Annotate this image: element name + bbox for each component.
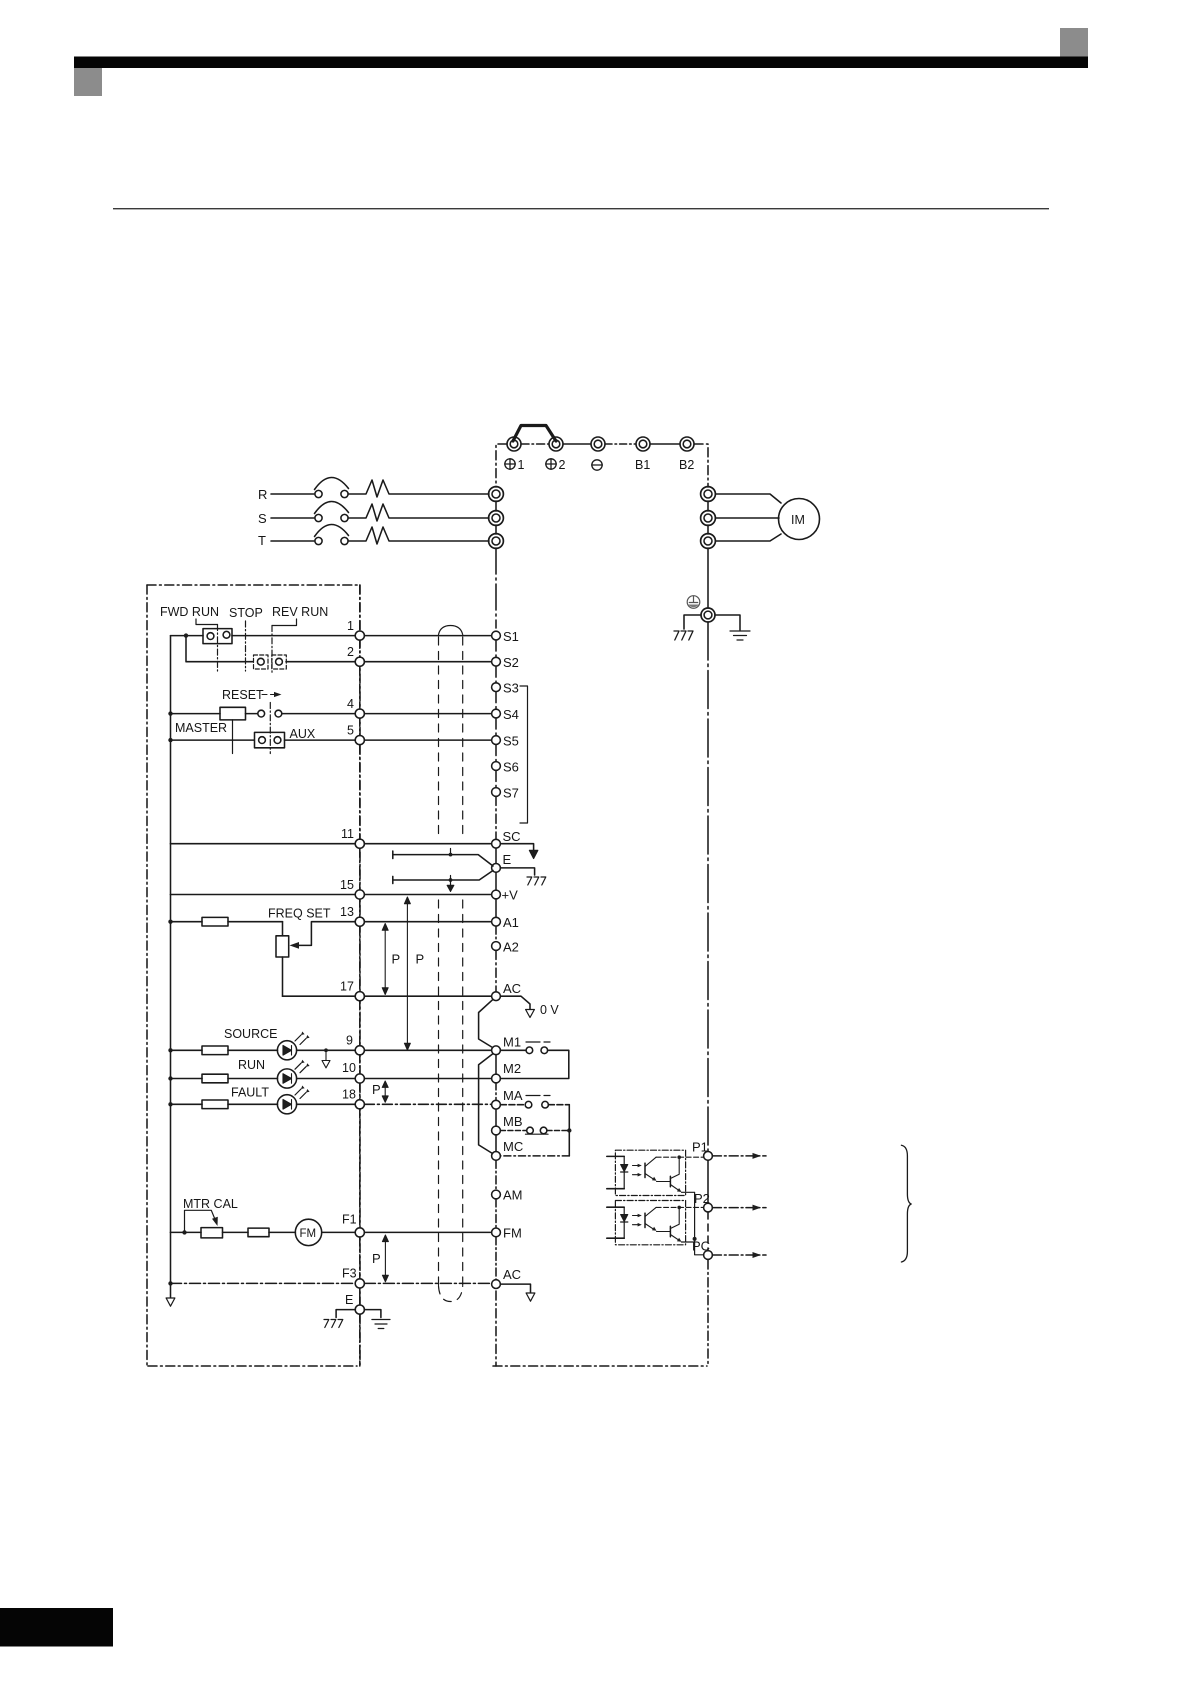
wire AC to 0V arrow	[500, 996, 530, 1009]
svg-text:SOURCE: SOURCE	[224, 1027, 277, 1041]
wire top rail left corner (dash-dot from +1 terminal to left rail and down to R)	[496, 444, 507, 487]
svg-text:S4: S4	[503, 707, 519, 722]
terminal AC2	[492, 1267, 521, 1289]
wire left rail T to S1	[495, 548, 497, 628]
wire top rail ring1-ring2	[521, 443, 549, 445]
node rail E to box bottom	[359, 1314, 361, 1366]
left rail FM to AC2	[495, 1237, 497, 1280]
left rail E to +V	[495, 872, 497, 890]
svg-text:B1: B1	[635, 458, 650, 472]
relay common vertical MA/MB to MC	[500, 1105, 571, 1156]
wire T input	[271, 540, 314, 542]
terminal FM	[492, 1226, 522, 1241]
label E2	[345, 1293, 353, 1307]
terminal +1	[507, 437, 521, 451]
pair arrow 10-18	[382, 1081, 388, 1102]
junction dot row1	[184, 633, 188, 637]
node rail F1-F3	[359, 1237, 361, 1279]
optocoupler U2 input stub top	[607, 1206, 624, 1208]
brace multi-function outputs	[901, 1145, 911, 1262]
terminal A1	[492, 915, 519, 930]
label F3	[342, 1267, 357, 1281]
svg-text:5: 5	[347, 724, 354, 738]
svg-text:P: P	[416, 952, 425, 967]
svg-text:S2: S2	[503, 655, 519, 670]
optocoupler U1 light arrows	[633, 1164, 642, 1177]
optocoupler U1 LED	[621, 1156, 628, 1188]
footer black block	[0, 1608, 113, 1647]
svg-text:A2: A2	[503, 940, 519, 955]
wire row4 contact to node4	[282, 713, 355, 715]
svg-text:S5: S5	[503, 734, 519, 749]
terminal S5	[492, 734, 519, 749]
svg-text:MASTER: MASTER	[175, 721, 227, 735]
svg-text:17: 17	[340, 980, 354, 994]
chassis ground E2 left	[324, 1320, 343, 1328]
common emitter junction to PC	[693, 1237, 704, 1255]
svg-text:2: 2	[559, 458, 566, 472]
wire P2 out with arrow	[712, 1205, 766, 1211]
optocoupler U1 emitter out	[682, 1192, 695, 1239]
node F1	[355, 1228, 364, 1237]
open arrow AC2	[526, 1293, 535, 1301]
svg-text:FM: FM	[503, 1226, 522, 1241]
wire F3 row bus to node	[171, 1282, 356, 1284]
label 9	[346, 1034, 353, 1048]
node F3	[355, 1279, 364, 1288]
node rail 15-13	[359, 899, 361, 917]
pair label P FM-F3	[372, 1251, 381, 1266]
linkage bracket REV RUN	[272, 619, 297, 626]
label MTR CAL	[183, 1197, 238, 1211]
node rail 1-2	[359, 640, 361, 657]
wire resistor to FM meter	[269, 1231, 295, 1233]
wire row1 node1 to S1	[364, 635, 491, 637]
reset pointer dashes and arrow	[262, 692, 282, 697]
label 4	[347, 697, 354, 711]
node rail 9-10	[359, 1055, 361, 1074]
terminal T	[489, 534, 504, 549]
svg-text:M2: M2	[503, 1061, 521, 1076]
optocoupler U2 input stub bottom	[607, 1237, 624, 1239]
wire row1 switch to node1	[232, 635, 355, 637]
pair label P left	[392, 952, 401, 967]
svg-text:REV RUN: REV RUN	[272, 605, 328, 619]
0V open arrow	[526, 1010, 535, 1018]
node rail 13-17	[359, 926, 361, 991]
contact MA-MB common bar	[526, 1095, 550, 1097]
wire RESET box to contact	[246, 713, 258, 715]
label 11	[341, 827, 354, 841]
svg-text:P1: P1	[692, 1140, 708, 1155]
wire U-V-W rail	[707, 501, 709, 534]
left rail MC-AM	[495, 1160, 497, 1190]
left bus row13 to row9	[170, 922, 172, 1051]
node rail 17-9	[359, 1001, 361, 1046]
linkage bracket FWD RUN	[196, 619, 218, 625]
wire row17 pot bottom to node17	[283, 995, 356, 997]
ground terminal	[701, 608, 715, 622]
potentiometer wiper arrow	[290, 922, 356, 949]
svg-text:2: 2	[347, 645, 354, 659]
wire pot to resistor	[223, 1231, 249, 1233]
pair label P row10-18	[372, 1082, 381, 1097]
svg-text:FWD RUN: FWD RUN	[160, 605, 219, 619]
wire row2 node2 to S2	[364, 661, 491, 663]
switch FWD RUN	[203, 629, 232, 644]
switch STOP (NC dashed)	[254, 655, 269, 669]
terminal PC	[692, 1239, 712, 1260]
header black bar	[74, 57, 1088, 69]
label FWD RUN	[160, 605, 219, 619]
control box border bottom	[148, 1365, 357, 1367]
terminal AC	[492, 981, 521, 1001]
linkage line STOP switch	[245, 621, 247, 671]
rail bulge AC to M1	[479, 1000, 493, 1048]
label RUN	[238, 1058, 265, 1072]
switch RESET box	[220, 707, 246, 753]
wire row10 node to M2	[364, 1078, 491, 1080]
linkage line RESET/AUX	[269, 703, 271, 754]
fuse zigzag S	[348, 504, 489, 521]
wire F1 to FM terminal	[364, 1231, 491, 1233]
wire U to motor	[716, 494, 782, 503]
svg-text:9: 9	[346, 1034, 353, 1048]
svg-text:10: 10	[342, 1061, 356, 1075]
wire row13 node to A1	[364, 921, 491, 923]
terminal P2	[694, 1191, 712, 1212]
wire row18 node to MA	[364, 1103, 491, 1105]
wire S input	[271, 517, 314, 519]
node rail F3-E	[359, 1288, 361, 1305]
wire PC out with arrow	[712, 1252, 766, 1258]
left rail +V to A1	[495, 899, 497, 917]
terminal M2	[492, 1061, 521, 1083]
motor IM	[779, 499, 820, 540]
shield oval 1 right dashed line	[462, 637, 464, 840]
contact MA	[500, 1101, 569, 1108]
linkage line REV RUN switch	[271, 626, 273, 675]
label 1	[347, 619, 354, 633]
contact MB	[500, 1127, 569, 1134]
jumper bar +1 to +2	[513, 426, 556, 442]
node rail 10-18	[359, 1083, 361, 1100]
shield drain wire lower (to E)	[393, 871, 493, 884]
label 18	[342, 1088, 356, 1102]
node rail 11-15	[359, 848, 361, 890]
node 10	[355, 1074, 364, 1083]
inverter left rail AC2 to bottom	[495, 1291, 497, 1366]
optocoupler U1 phototransistor pair	[645, 1157, 682, 1192]
left rail AM-FM	[495, 1199, 497, 1228]
pair arrow +V-M1 (long)	[404, 897, 410, 1050]
svg-text:B2: B2	[679, 458, 694, 472]
node rail (control box right edge)	[359, 585, 361, 1366]
wire top rail minus-B1	[605, 443, 636, 445]
node rail 18-F1	[359, 1109, 361, 1228]
junction dot row18	[168, 1102, 172, 1106]
label REV RUN	[272, 605, 328, 619]
node 1	[355, 631, 364, 640]
node 17	[355, 992, 364, 1001]
svg-text:STOP: STOP	[229, 606, 263, 620]
header rule	[113, 208, 1049, 209]
optocoupler U2 box	[615, 1201, 685, 1245]
optocoupler U2 emitter out	[682, 1241, 695, 1243]
fuse zigzag T	[348, 527, 489, 544]
label F1	[342, 1213, 357, 1227]
wire FM meter to node F1	[322, 1231, 355, 1233]
terminal S4	[492, 707, 519, 722]
label S	[258, 511, 267, 526]
svg-text:T: T	[258, 533, 266, 548]
shield oval 1 left dashed line	[438, 637, 440, 840]
left bus row9 to row18 and beyond	[170, 1050, 172, 1104]
label minus	[592, 460, 602, 470]
wire R-S-T rail	[495, 501, 497, 534]
wire row5 node5 to S5	[364, 739, 491, 741]
svg-text:R: R	[258, 487, 267, 502]
optocoupler U2 light arrows	[633, 1214, 642, 1227]
terminal SC	[492, 829, 521, 848]
svg-text:RUN: RUN	[238, 1058, 265, 1072]
wire E2 to chassis ground left	[336, 1310, 355, 1318]
svg-text:MB: MB	[503, 1114, 523, 1129]
terminal +V	[492, 888, 518, 903]
wire ground right branch	[715, 615, 740, 630]
svg-text:FM: FM	[300, 1228, 317, 1240]
wire row9 LED to node9	[297, 1049, 355, 1051]
wire FM row bus to pot	[171, 1231, 202, 1233]
contact circles row4	[258, 710, 282, 717]
left rail A1 to A2	[495, 926, 497, 942]
wire row4 node4 to S4	[364, 713, 491, 715]
svg-text:18: 18	[342, 1088, 356, 1102]
label FREQ SET	[268, 907, 331, 921]
terminal E	[492, 852, 512, 872]
FM meter	[295, 1219, 321, 1245]
left bus FM row to F3 row	[170, 1232, 172, 1283]
svg-text:FREQ SET: FREQ SET	[268, 907, 331, 921]
svg-text:1: 1	[518, 458, 525, 472]
wire ground left branch	[684, 615, 701, 629]
svg-text:F3: F3	[342, 1267, 357, 1281]
svg-text:AUX: AUX	[290, 727, 316, 741]
switch REV RUN (NC dashed)	[272, 655, 287, 669]
left bus row18 to FM row	[170, 1104, 172, 1232]
terminal MA	[492, 1088, 523, 1109]
wire F3 to AC2 terminal	[364, 1282, 491, 1284]
switch AUX	[255, 732, 285, 747]
shield tap lower with arrow to +V pair	[447, 876, 454, 892]
svg-text:1: 1	[347, 619, 354, 633]
label STOP	[229, 606, 263, 620]
wire row15 node to +V	[364, 894, 491, 896]
svg-text:P: P	[392, 952, 401, 967]
wire W rail down to ground terminal	[707, 548, 709, 608]
resistor row9	[171, 1046, 278, 1055]
left rail M1-M2	[495, 1055, 497, 1074]
wire row1 left bus to FWD switch	[171, 635, 204, 637]
earth ground right of terminal	[730, 631, 750, 640]
label R	[258, 487, 267, 502]
label RESET	[222, 688, 264, 702]
terminal B2	[680, 437, 694, 451]
shield arrow down (solid)	[529, 850, 537, 859]
node rail 2-4	[359, 666, 361, 709]
left rail S1-S7 segments	[495, 640, 497, 788]
label FAULT	[231, 1086, 269, 1100]
LED RUN	[277, 1060, 309, 1088]
breaker pole T	[315, 524, 349, 544]
terminal minus	[591, 437, 605, 451]
breaker pole S	[315, 501, 349, 521]
right rail P2-PC dashed	[707, 1212, 709, 1251]
svg-text:MA: MA	[503, 1088, 523, 1103]
wire row5 bus to AUX switch	[171, 739, 255, 741]
svg-text:RESET: RESET	[222, 688, 264, 702]
svg-text:13: 13	[340, 905, 354, 919]
node rail 4-5	[359, 718, 361, 735]
control box border top	[147, 584, 360, 586]
left bus vertical row1 to row11	[170, 636, 172, 844]
left rail M2-MA	[495, 1083, 497, 1100]
bracket S3-S7	[520, 686, 528, 823]
svg-text:A1: A1	[503, 915, 519, 930]
shield tap upper	[449, 849, 453, 857]
left rail A2 to AC	[495, 950, 497, 991]
junction dot row10	[168, 1076, 172, 1080]
terminal MC	[492, 1139, 524, 1160]
earth ground E2 right	[372, 1320, 390, 1329]
svg-text:SC: SC	[503, 829, 521, 844]
wire row18 LED to node18	[297, 1103, 355, 1105]
header gray square left	[74, 68, 102, 96]
wire row15 bus to node15	[171, 894, 356, 896]
label +2	[546, 458, 566, 472]
potentiometer MTR CAL	[201, 1228, 223, 1238]
pair arrow FM-F3	[382, 1235, 388, 1282]
svg-text:P: P	[372, 1251, 381, 1266]
node 11	[355, 839, 364, 848]
resistor row18	[171, 1100, 278, 1109]
left rail MA-MB	[495, 1109, 497, 1126]
wire row11 bus to node11	[171, 843, 356, 845]
terminal V	[701, 511, 716, 526]
optocoupler U1 input stub bottom	[607, 1188, 624, 1190]
label 0 V	[540, 1003, 559, 1017]
resistor FM row	[248, 1228, 269, 1237]
junction dot row4	[168, 711, 172, 715]
resistor row13	[171, 917, 283, 926]
svg-text:MTR CAL: MTR CAL	[183, 1197, 238, 1211]
svg-text:S6: S6	[503, 760, 519, 775]
svg-text:AC: AC	[503, 1267, 521, 1282]
terminal A2	[492, 940, 519, 955]
wire row5 switch to node5	[285, 739, 356, 741]
wire row2 to node2	[286, 661, 355, 663]
terminal W	[701, 534, 716, 549]
terminal M1	[492, 1035, 521, 1055]
label 2	[347, 645, 354, 659]
terminal AM	[492, 1188, 523, 1203]
PE symbol circle	[687, 596, 700, 609]
junction dot F3	[168, 1281, 172, 1285]
left bus row11 to row15	[170, 844, 172, 895]
wire W to motor	[716, 534, 782, 541]
control box border left	[146, 585, 148, 1366]
rail bulge M1 to MC	[479, 1054, 493, 1154]
label +1	[505, 458, 525, 472]
wire R input	[271, 493, 314, 495]
svg-text:P: P	[372, 1082, 381, 1097]
junction dot row9	[168, 1048, 172, 1052]
optocoupler U1 collector dash to P1	[656, 1155, 703, 1159]
label AUX	[290, 727, 316, 741]
node 2	[355, 657, 364, 666]
terminal MB	[492, 1114, 523, 1135]
wire row9 node to M1	[364, 1049, 491, 1051]
pair arrow A1-AC	[382, 924, 388, 995]
shield drain dot and arrow row9	[322, 1048, 330, 1068]
label 10	[342, 1061, 356, 1075]
linkage line FWD RUN switch	[217, 625, 219, 672]
svg-text:S3: S3	[503, 681, 519, 696]
left rail MB-MC	[495, 1135, 497, 1152]
shield oval 1 top cap arc	[439, 626, 463, 635]
optocoupler U1 input stub top	[607, 1155, 624, 1157]
wire top rail right corner (B2 to right rail down to U)	[694, 444, 708, 487]
wire row2 branch from row1	[186, 637, 253, 662]
terminal S7	[492, 786, 519, 801]
junction dot row13	[168, 920, 172, 924]
wire right rail ground to P1	[707, 622, 709, 1151]
terminal S	[489, 511, 504, 526]
label B2	[679, 458, 694, 472]
label B1	[635, 458, 650, 472]
svg-text:0 V: 0 V	[540, 1003, 559, 1017]
optocoupler U2 collector dash to P2	[656, 1206, 703, 1210]
terminal P1	[692, 1140, 712, 1161]
MTR CAL wiper branch	[182, 1210, 218, 1234]
LED SOURCE	[277, 1032, 309, 1060]
breaker pole R	[315, 477, 349, 497]
node 13	[355, 917, 364, 926]
svg-text:S7: S7	[503, 786, 519, 801]
open arrow left bus bottom	[166, 1298, 175, 1306]
node E2	[355, 1305, 364, 1314]
resistor row10	[171, 1074, 278, 1083]
chassis ground at E right	[527, 877, 546, 885]
node rail segments mid (5 to 11, 17 to 9 etc)	[359, 585, 361, 630]
wire SC to shield arrow	[500, 844, 533, 850]
terminal U	[701, 487, 716, 502]
label 17	[340, 980, 354, 994]
terminal S2	[492, 655, 519, 670]
label 5	[347, 724, 354, 738]
svg-text:4: 4	[347, 697, 354, 711]
node 18	[355, 1100, 364, 1109]
svg-text:MC: MC	[503, 1139, 523, 1154]
wire row4 bus to RESET switch	[171, 713, 221, 715]
optocoupler U2 LED	[621, 1207, 628, 1238]
svg-text:IM: IM	[791, 513, 805, 527]
LED FAULT	[277, 1086, 309, 1114]
wire row11 node to SC	[364, 843, 491, 845]
chassis ground left of terminal	[674, 631, 693, 640]
svg-text:+V: +V	[502, 888, 519, 903]
terminal S1	[492, 629, 519, 644]
